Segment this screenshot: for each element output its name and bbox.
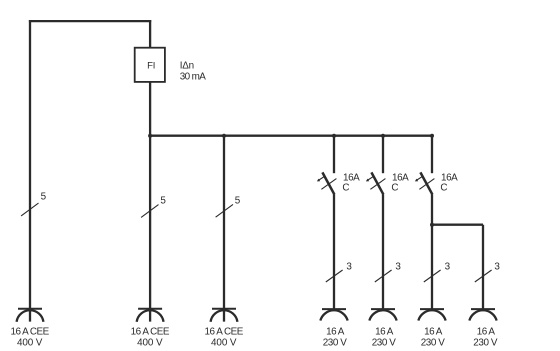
svg-text:230 V: 230 V	[323, 338, 348, 349]
conductor-count slash 3, branch 5	[375, 270, 392, 282]
socket outlet X2 CEE 400V	[137, 309, 164, 322]
svg-text:16 A CEE: 16 A CEE	[10, 327, 49, 338]
svg-text:400 V: 400 V	[137, 338, 163, 349]
svg-text:16 A: 16 A	[477, 327, 496, 338]
conductor-count slash 5, branch 3	[216, 204, 233, 217]
label 16 A CEE 400 V for X2	[131, 327, 170, 349]
svg-text:400 V: 400 V	[17, 338, 43, 349]
wire: FI output down to distribution bus	[149, 82, 151, 136]
svg-text:3: 3	[445, 261, 451, 272]
socket outlet X1 CEE 400V	[17, 309, 44, 322]
junction dot: breaker Q2 at bus	[381, 134, 385, 138]
wire: drop to outlet 7	[482, 225, 484, 310]
value label 16A C for Q2	[391, 172, 409, 193]
value label IΔn 30 mA for RCD	[180, 61, 207, 83]
wire: branch 2 drop to CEE outlet 2	[149, 136, 151, 322]
wire: distribution bus horizontal	[150, 135, 432, 137]
wire: riser from top feeder into FI	[149, 20, 151, 48]
socket outlet X5 230V	[369, 309, 396, 321]
svg-text:C: C	[440, 183, 447, 194]
label 16 A CEE 400 V for X1	[10, 327, 49, 349]
svg-text:400 V: 400 V	[211, 338, 237, 349]
svg-text:IΔn: IΔn	[180, 61, 194, 72]
svg-text:5: 5	[160, 195, 166, 206]
junction dot: FI drop to bus	[148, 134, 152, 138]
svg-text:5: 5	[235, 196, 241, 207]
conductor-count slash 3, branch 4	[326, 270, 343, 282]
wire: left riser to CEE outlet 1	[29, 20, 31, 322]
svg-text:16 A: 16 A	[326, 327, 345, 338]
svg-text:C: C	[391, 183, 398, 194]
svg-text:16 A CEE: 16 A CEE	[131, 327, 170, 338]
socket outlet X6 230V	[418, 309, 445, 321]
junction dot: breaker Q1 at bus	[332, 134, 336, 138]
svg-text:3: 3	[395, 261, 401, 272]
conductor-count slash 3, branch 6	[424, 270, 441, 282]
svg-text:3: 3	[346, 261, 352, 272]
wire: breaker Q2 load side to outlet 5	[382, 194, 384, 309]
wire: breaker Q2 feed from bus	[382, 136, 384, 174]
wire: breaker Q3 feed from bus	[431, 136, 433, 174]
label 16 A 230 V for X6	[421, 327, 446, 349]
circuit breaker Q2 16A C	[366, 172, 386, 194]
svg-text:16 A: 16 A	[375, 327, 394, 338]
svg-text:230 V: 230 V	[372, 338, 397, 349]
RCD FI residual-current device	[135, 48, 165, 82]
svg-text:3: 3	[494, 261, 500, 272]
svg-text:30 mA: 30 mA	[180, 71, 207, 82]
wire: breaker Q3 load side to outlet 6	[431, 194, 433, 309]
wire: top horizontal feeder	[29, 20, 151, 22]
junction dot: tee to outlet 7	[430, 223, 434, 227]
junction dot: branch 3 at bus	[222, 134, 226, 138]
conductor-count slash 5, branch 2	[141, 205, 158, 218]
svg-text:230 V: 230 V	[421, 338, 446, 349]
socket outlet X3 CEE 400V	[211, 309, 238, 322]
label 16 A 230 V for X7	[473, 327, 498, 349]
wire: branch 3 drop to CEE outlet 3	[223, 136, 225, 322]
svg-text:16 A: 16 A	[424, 327, 443, 338]
svg-text:5: 5	[41, 192, 47, 203]
svg-text:FI: FI	[147, 61, 155, 72]
svg-text:230 V: 230 V	[473, 338, 498, 349]
label 16 A CEE 400 V for X3	[205, 327, 244, 349]
junction dot: breaker Q3 at bus	[430, 134, 434, 138]
value label 16A C for Q1	[342, 172, 360, 193]
wire: tee branch horizontal to outlet 7	[432, 224, 483, 226]
circuit breaker Q1 16A C	[317, 172, 337, 194]
value label 16A C for Q3	[440, 172, 458, 193]
socket outlet X7 230V	[469, 309, 496, 321]
label 16 A 230 V for X5	[372, 327, 397, 349]
circuit breaker Q3 16A C	[415, 172, 435, 194]
svg-text:16 A CEE: 16 A CEE	[205, 327, 244, 338]
conductor-count slash 3, branch 7	[475, 270, 492, 282]
wire: breaker Q1 load side to outlet 4	[333, 194, 335, 309]
socket outlet X4 230V	[320, 309, 347, 321]
wire: breaker Q1 feed from bus	[333, 136, 335, 174]
label 16 A 230 V for X4	[323, 327, 348, 349]
svg-text:C: C	[342, 183, 349, 194]
conductor-count slash 5, branch 1	[21, 203, 38, 216]
